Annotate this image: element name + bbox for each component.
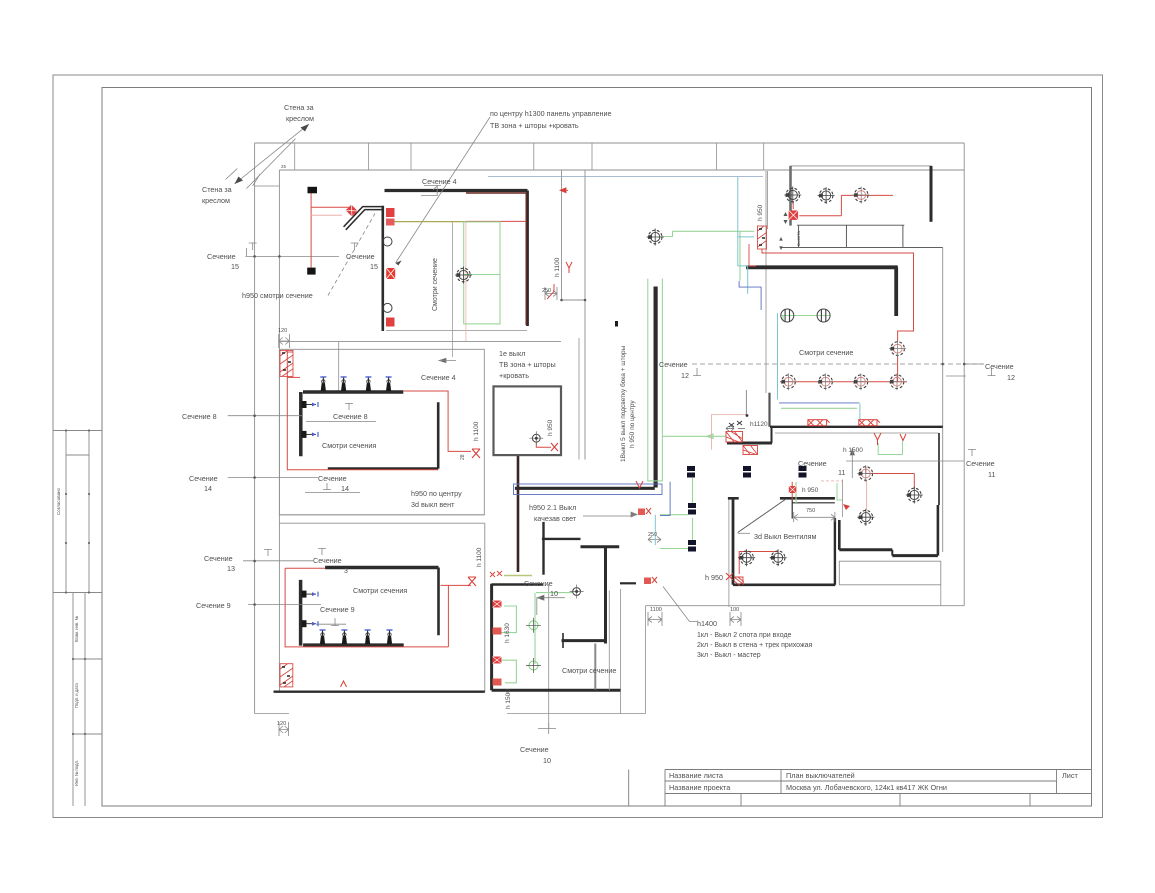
sidebar bottom box bbox=[73, 593, 102, 807]
wire cyan top riser bbox=[738, 177, 754, 294]
plan top band lower line bbox=[279, 169, 964, 171]
dressing area inner thin bbox=[745, 390, 747, 416]
svg-text:Лист: Лист bbox=[1062, 771, 1079, 780]
section 12 line bbox=[692, 363, 984, 365]
bedroom2 wall right bbox=[437, 568, 440, 636]
svg-text:Сечение: Сечение bbox=[318, 474, 347, 483]
plan right vertical bbox=[963, 143, 965, 606]
nook olive wire bbox=[504, 575, 532, 577]
wire pink speaker branch bbox=[311, 214, 342, 216]
dim pink dashes hall bbox=[821, 480, 843, 482]
leader arrowhead bbox=[396, 260, 402, 265]
hall east wall bbox=[938, 433, 940, 505]
svg-text:Стена за: Стена за bbox=[284, 103, 314, 112]
section 11 arrow mid bbox=[850, 449, 854, 478]
svg-text:Сечение: Сечение bbox=[985, 362, 1014, 371]
wire red kitchen bbox=[536, 443, 551, 448]
wire cyan center bbox=[654, 515, 656, 545]
fixture entry 2 bbox=[770, 549, 787, 566]
fixture living vent pair 2 bbox=[817, 309, 830, 322]
nook switch cluster bbox=[490, 571, 502, 577]
wall-behind-chair ticks bbox=[226, 169, 261, 186]
svg-text:Сечение: Сечение bbox=[798, 459, 827, 468]
fixture bathroom gray bbox=[570, 585, 584, 599]
sheet inner frame bbox=[102, 88, 1092, 807]
svg-text:Смотри сечение: Смотри сечение bbox=[432, 258, 439, 311]
svg-text:Сечение: Сечение bbox=[524, 579, 553, 588]
bathroom bottom wall bbox=[492, 689, 621, 692]
svg-text:120: 120 bbox=[277, 721, 286, 727]
bedroom2 wall bottom bbox=[303, 643, 404, 647]
svg-text:высота: высота bbox=[796, 231, 801, 246]
section 15 tick left bbox=[247, 243, 257, 257]
closet west wall bbox=[838, 520, 841, 550]
svg-text:h 950: h 950 bbox=[705, 573, 723, 582]
bathroom inner step jamb bbox=[562, 633, 564, 648]
section 12 right stub bbox=[946, 364, 984, 376]
room A dim vertical bbox=[452, 221, 454, 357]
red sym bathroom wall 1 bbox=[493, 601, 502, 608]
sconce bedroom1 b bbox=[341, 377, 347, 391]
wall sym bedroom2 b bbox=[302, 620, 319, 627]
wire green living drop bbox=[782, 316, 784, 321]
sconce bedroom1 a bbox=[320, 377, 326, 391]
entry right wall bbox=[834, 518, 836, 585]
svg-text:Сечение 4: Сечение 4 bbox=[422, 177, 457, 186]
section 4 top tick bbox=[421, 186, 441, 197]
central spine wall bbox=[653, 287, 657, 488]
plan bottom right boundary bbox=[646, 605, 965, 607]
wire red room A bbox=[466, 220, 526, 222]
svg-text:по центру h1300 панель управле: по центру h1300 панель управление bbox=[490, 109, 612, 118]
svg-text:3: 3 bbox=[344, 568, 348, 575]
closet east wall bbox=[937, 505, 940, 556]
zone divider under room A bbox=[279, 340, 561, 342]
closet wall step a bbox=[839, 548, 892, 551]
svg-text:Инв. № подл.: Инв. № подл. bbox=[74, 760, 79, 786]
svg-text:14: 14 bbox=[341, 484, 349, 493]
svg-text:Сечение: Сечение bbox=[204, 554, 233, 563]
svg-text:Москва ул. Лобачевского, 124к1: Москва ул. Лобачевского, 124к1 кв417 ЖК … bbox=[786, 783, 947, 792]
kitchen nook vertical bbox=[542, 522, 544, 575]
outlet red room A wall 1 bbox=[386, 208, 395, 217]
svg-text:11: 11 bbox=[838, 468, 845, 477]
outlet red room A wall 2 (panel) bbox=[386, 268, 395, 279]
svg-text:h1120: h1120 bbox=[750, 421, 768, 428]
fixture bathroom green 1 bbox=[526, 618, 541, 633]
bedroom1 thin rect bbox=[279, 349, 484, 515]
wall-behind-chair arrowheads bbox=[235, 124, 310, 184]
leader 3d vent bbox=[738, 532, 750, 534]
red V corridor right bbox=[900, 434, 906, 441]
entry top wall east bbox=[780, 497, 835, 500]
svg-text:качезав свет: качезав свет bbox=[534, 514, 577, 523]
svg-text:1е выкл: 1е выкл bbox=[499, 349, 525, 358]
sconce bedroom2 b bbox=[341, 630, 347, 644]
fixture living row 4 bbox=[889, 373, 906, 390]
wire red corridor elbow bbox=[547, 284, 554, 299]
section 11 tick right bbox=[968, 449, 976, 456]
entry door swing bbox=[738, 499, 787, 533]
fixture dining bbox=[647, 229, 664, 246]
wire red bedroom1 loop bbox=[287, 352, 471, 470]
plan left inner vertical bbox=[278, 170, 280, 692]
sconce bedroom2 d bbox=[387, 630, 393, 644]
svg-text:h 1100: h 1100 bbox=[554, 257, 561, 277]
svg-text:3d выкл вент: 3d выкл вент bbox=[411, 500, 455, 509]
wall sym bedroom1 b bbox=[302, 431, 319, 438]
plan top boundary line bbox=[255, 142, 965, 144]
wall room A slant bbox=[344, 207, 383, 230]
plan bottom exterior wall bbox=[274, 691, 485, 693]
dining separator vertical bbox=[766, 171, 768, 393]
wire red hall drop bbox=[866, 480, 868, 510]
maroon curtain rail room A bbox=[466, 193, 526, 325]
svg-text:750: 750 bbox=[806, 508, 815, 514]
svg-text:h 950: h 950 bbox=[547, 419, 554, 436]
wire red living top bbox=[793, 195, 893, 215]
dim 750 line bbox=[794, 512, 835, 522]
wall room A right (with corridor) bbox=[526, 191, 529, 327]
wire green living pair link bbox=[781, 315, 830, 317]
red sym entry switches bbox=[789, 486, 797, 493]
vestibule tie line bbox=[255, 185, 280, 187]
wire red bedroom2 loop bbox=[285, 568, 471, 647]
section 9 line bbox=[248, 604, 321, 606]
sconce bedroom2 c bbox=[365, 630, 371, 644]
floor box corridor 2 bbox=[743, 466, 751, 478]
speaker black marker 1 bbox=[308, 187, 318, 194]
switch cluster corridor arrow bbox=[560, 188, 568, 193]
fixture living top red 2 bbox=[853, 187, 870, 204]
red V hall left bbox=[636, 481, 643, 488]
outlet red room A wall 1b bbox=[386, 219, 395, 226]
wire green entry riser bbox=[795, 482, 797, 503]
closet wall step b bbox=[891, 550, 893, 556]
switch red kachezav bbox=[638, 508, 651, 515]
dim arrows top corridor bbox=[779, 212, 787, 250]
svg-text:10: 10 bbox=[550, 589, 558, 598]
svg-text:h 950: h 950 bbox=[757, 204, 764, 221]
leader dashed to section note bbox=[328, 214, 375, 296]
wire red panel drop bbox=[749, 244, 756, 266]
corridor vertical west bbox=[561, 170, 563, 300]
switch marks above K1120 bbox=[729, 421, 742, 427]
red outlet left of section15 bbox=[387, 268, 395, 278]
svg-text:2кл - Выкл в стена + трек прих: 2кл - Выкл в стена + трек прихожая bbox=[697, 642, 813, 649]
wire olive room A feed bbox=[394, 221, 466, 223]
bedroom1 wall bottom bbox=[328, 467, 438, 470]
floor box corridor 1 bbox=[687, 466, 695, 478]
svg-text:Согласовано: Согласовано bbox=[56, 487, 61, 515]
wall room A left vertical bbox=[381, 206, 384, 331]
wire green to panel K1120 bbox=[662, 434, 725, 439]
svg-text:Сечение: Сечение bbox=[659, 360, 688, 369]
fixture living mid bbox=[889, 340, 906, 357]
wire red hall right bbox=[866, 467, 915, 489]
dim pink K1120 bbox=[712, 414, 747, 449]
svg-text:Смотри сечение: Смотри сечение bbox=[562, 666, 616, 675]
wardrobe band bottom bbox=[781, 246, 943, 248]
corridor vertical east bbox=[584, 170, 586, 460]
wire red bedroom1 top stub bbox=[287, 376, 300, 378]
red V below bottom wall bbox=[341, 681, 347, 687]
hatch panel K1120 box A bbox=[726, 432, 743, 443]
junction dot K1120 bbox=[746, 414, 749, 417]
svg-text:15: 15 bbox=[370, 262, 378, 271]
svg-text:+кровать: +кровать bbox=[499, 371, 529, 380]
sidebar dots bbox=[66, 431, 89, 735]
outlet red room A wall 3 bbox=[386, 318, 395, 327]
section 8 line bbox=[228, 415, 303, 417]
svg-text:ТВ зона + шторы: ТВ зона + шторы bbox=[499, 360, 556, 369]
svg-text:h 1100: h 1100 bbox=[473, 421, 480, 441]
fixture entry 1 bbox=[738, 549, 755, 566]
entry top wall west bbox=[728, 497, 739, 500]
floor box corridor wall 2 bbox=[859, 420, 880, 426]
dim 100 right arrows bbox=[730, 612, 741, 626]
corridor step bbox=[562, 299, 586, 301]
fixture hall right 1 bbox=[857, 465, 874, 482]
fixture living row 3 bbox=[852, 373, 869, 390]
switch X bedroom1 bbox=[472, 449, 480, 458]
wire green spine U bbox=[648, 279, 663, 481]
svg-text:Сечение: Сечение bbox=[966, 459, 995, 468]
wall sym bedroom2 a bbox=[302, 591, 319, 598]
svg-text:25: 25 bbox=[281, 164, 287, 169]
floor box hall 2 bbox=[688, 540, 696, 552]
svg-text:Подп. и дата: Подп. и дата bbox=[74, 683, 79, 708]
svg-text:Сечение 4: Сечение 4 bbox=[421, 373, 456, 382]
wire red living loop bbox=[762, 249, 914, 382]
bathroom right thin parallel bbox=[608, 590, 610, 690]
wire green bathroom hook 2 bbox=[502, 660, 516, 683]
sheet outer border bbox=[53, 75, 1103, 818]
leader kachezav to switch bbox=[583, 512, 637, 517]
fixture living top black bbox=[784, 187, 801, 204]
top band ticks bbox=[295, 143, 764, 170]
fixture kitchen bbox=[529, 431, 543, 445]
dim 250 center arrows bbox=[648, 537, 661, 543]
section 10 mid arrow bbox=[537, 595, 565, 615]
title block grid bbox=[629, 770, 1092, 807]
svg-text:3кл - Выкл - мастер: 3кл - Выкл - мастер bbox=[697, 652, 761, 659]
wall circle room A 1 bbox=[383, 237, 392, 246]
bedroom1 duct vertical bbox=[338, 342, 340, 392]
entry top wall inner line bbox=[792, 502, 835, 504]
sidebar top box bbox=[53, 431, 102, 593]
section 13 line bbox=[243, 560, 313, 562]
wire green dining bbox=[662, 231, 755, 280]
section 8 underline bbox=[306, 421, 376, 423]
hallway south wall bbox=[515, 487, 655, 490]
switch X entry hall bbox=[726, 573, 733, 580]
closet right short vertical bbox=[940, 585, 942, 606]
wire green room A chord bbox=[464, 274, 500, 276]
section 9 tick bbox=[331, 618, 339, 626]
wall room A top bbox=[385, 189, 528, 192]
svg-text:h 950: h 950 bbox=[802, 487, 819, 494]
section 15 tick right bbox=[351, 243, 359, 251]
entry closet thin rect bbox=[839, 561, 941, 585]
svg-text:12: 12 bbox=[681, 371, 689, 380]
fixture living row 2 bbox=[817, 373, 834, 390]
red arrow hall bbox=[843, 504, 850, 510]
svg-text:h1400: h1400 bbox=[697, 619, 717, 628]
section 12 tick left bbox=[693, 368, 701, 376]
red sym bathroom wall 3 bbox=[493, 657, 502, 664]
wire red entry bbox=[739, 552, 778, 575]
corridor doorway wall piece bbox=[727, 442, 772, 445]
wire pale red room A vertical bbox=[465, 222, 467, 341]
wire green bathroom riser bbox=[534, 593, 536, 664]
dim 120 bottom arrows bbox=[279, 722, 289, 736]
wire blue corridor drop bbox=[739, 281, 761, 310]
bathroom corridor vertical east bbox=[645, 606, 647, 714]
svg-text:250: 250 bbox=[648, 532, 657, 538]
svg-text:креслом: креслом bbox=[202, 196, 230, 205]
svg-text:Сечение 9: Сечение 9 bbox=[320, 605, 355, 614]
svg-text:креслом: креслом bbox=[286, 114, 314, 123]
bedroom2 wall top bbox=[325, 566, 438, 570]
svg-text:10: 10 bbox=[543, 756, 551, 765]
bathroom left wall bbox=[490, 584, 493, 691]
svg-text:Название листа: Название листа bbox=[669, 771, 724, 780]
bedroom2 wall left bbox=[299, 580, 303, 646]
section 14 tick bbox=[323, 483, 331, 490]
hatch panel K1120 box B bbox=[743, 446, 758, 455]
fixture living vent pair 1 bbox=[781, 309, 794, 322]
outlet red living top bbox=[789, 210, 799, 220]
dim 100 left arrows bbox=[648, 612, 662, 626]
kitchen nook wall upper bbox=[542, 538, 581, 540]
bathroom corridor vertical west bbox=[620, 589, 622, 714]
sconce bedroom1 c bbox=[365, 377, 371, 391]
sconce bedroom1 d bbox=[386, 377, 392, 391]
wire green wardrobe U bbox=[878, 441, 902, 455]
living room right wall bbox=[930, 166, 933, 222]
bathroom niche gray vertical bbox=[594, 644, 596, 690]
svg-text:3d Выкл Вентилям: 3d Выкл Вентилям bbox=[754, 532, 817, 541]
leader to control panel bbox=[396, 117, 491, 263]
svg-text:Сечение 8: Сечение 8 bbox=[182, 412, 217, 421]
bathroom right wall bbox=[604, 547, 607, 644]
section 13 tick bbox=[264, 549, 272, 556]
corridor stub wall left of entry bbox=[620, 582, 636, 584]
bedroom1 wall top bbox=[303, 390, 403, 394]
red sym bathroom wall 4 bbox=[493, 679, 502, 686]
svg-text:Смотри сечения: Смотри сечения bbox=[353, 586, 407, 595]
svg-text:ТВ зона + шторы +кровать: ТВ зона + шторы +кровать bbox=[490, 121, 579, 130]
leader h1400 bbox=[663, 587, 697, 622]
svg-text:Сечение: Сечение bbox=[313, 556, 342, 565]
section10 riser bbox=[548, 584, 550, 728]
hatch panel bedroom2 bbox=[280, 664, 293, 687]
entry door jamb bbox=[791, 498, 793, 518]
section 10 bottom tick bbox=[538, 723, 556, 734]
section 9 underline bbox=[316, 623, 346, 625]
svg-text:14: 14 bbox=[204, 484, 212, 493]
wall-behind-chair diagonal 1 bbox=[235, 124, 310, 184]
wire red speaker column bbox=[311, 193, 349, 267]
pier vertical left of corridor wall bbox=[768, 393, 770, 427]
wire cyan living bbox=[778, 313, 860, 420]
svg-text:Название проекта: Название проекта bbox=[669, 783, 731, 792]
corridor inner vertical bbox=[578, 338, 580, 460]
svg-text:Сечение: Сечение bbox=[207, 252, 236, 261]
bathroom top wall bbox=[492, 583, 543, 586]
hall thin vertical bbox=[842, 480, 844, 518]
fixture hall right 2 bbox=[906, 487, 923, 504]
svg-text:План выключателей: План выключателей bbox=[786, 771, 855, 780]
section 14 underline bbox=[305, 492, 360, 494]
red V wardrobe bbox=[874, 433, 881, 445]
kitchen shaft room outline bbox=[494, 386, 562, 455]
switch X bedroom2 bbox=[468, 577, 476, 586]
svg-text:28: 28 bbox=[460, 454, 466, 460]
hatch panel bedroom1 bbox=[280, 350, 293, 376]
svg-text:h 1500: h 1500 bbox=[843, 447, 863, 454]
svg-text:Смотри сечения: Смотри сечения bbox=[322, 441, 376, 450]
svg-text:120: 120 bbox=[278, 328, 287, 334]
hatch panel top corridor bbox=[758, 226, 767, 249]
wall under kitchen shaft bbox=[517, 456, 520, 572]
wire red entry switch riser bbox=[791, 482, 793, 500]
floor box corridor 3 bbox=[799, 466, 807, 478]
red entry hatch corner bbox=[734, 577, 744, 586]
plan left outer vertical bbox=[254, 143, 256, 714]
svg-text:1100: 1100 bbox=[650, 607, 662, 613]
svg-text:Сечение: Сечение bbox=[189, 474, 218, 483]
corridor north wall bbox=[770, 426, 943, 428]
dressing L wall vertical bbox=[894, 267, 898, 316]
fixture room A bbox=[455, 267, 472, 284]
LEFT SIDEBAR bbox=[53, 431, 102, 807]
mini wall mark center bbox=[615, 321, 618, 327]
living room top thin bbox=[791, 165, 932, 167]
wardrobe band top bbox=[797, 224, 904, 226]
section 8 tick bbox=[345, 403, 353, 410]
bathroom inner step wall bbox=[562, 639, 606, 642]
fixture living top red 1 bbox=[818, 187, 835, 204]
svg-text:1Выкл 5 выкл подсветку бока +: 1Выкл 5 выкл подсветку бока + шторы bbox=[619, 345, 627, 462]
corridor wall lower thin bbox=[775, 432, 939, 434]
wire blue living horizontal bbox=[779, 402, 859, 404]
svg-text:h 950 по центру: h 950 по центру bbox=[629, 400, 636, 448]
entry left wall bbox=[732, 498, 735, 585]
red sym bathroom wall 2 bbox=[493, 628, 502, 635]
hallway wall blue outline bbox=[514, 484, 663, 495]
section 11 line bbox=[846, 460, 964, 462]
living room left pier bbox=[789, 166, 792, 226]
svg-text:12: 12 bbox=[1007, 373, 1015, 382]
wire green hall elbow bbox=[837, 483, 843, 500]
section 12 tick right bbox=[988, 368, 996, 376]
wire green bathroom hook 1 bbox=[500, 606, 516, 633]
curtain line top bbox=[488, 176, 763, 178]
svg-text:Сечение: Сечение bbox=[346, 252, 375, 261]
bedroom2 thin right bbox=[484, 523, 486, 692]
wire green room A loop bbox=[464, 222, 500, 324]
dressing L wall horizontal bbox=[746, 265, 898, 269]
dim 120 top arrows bbox=[279, 334, 290, 348]
fixture living row 1 bbox=[780, 373, 797, 390]
corridor doorway jamb bbox=[771, 427, 773, 443]
fixture hall right 3 bbox=[857, 509, 874, 526]
svg-text:1кл - Выкл 2 спота при входе: 1кл - Выкл 2 спота при входе bbox=[697, 632, 792, 639]
wall-behind-chair diagonal 2 bbox=[246, 139, 295, 189]
switch X kitchen bbox=[551, 443, 558, 451]
